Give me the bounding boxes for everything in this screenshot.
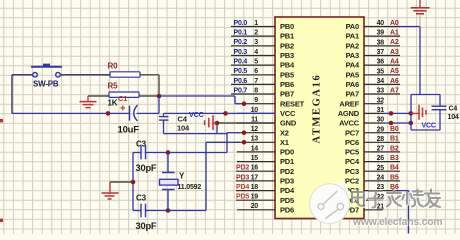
- svg-text:A5: A5: [390, 68, 399, 75]
- svg-text:33: 33: [377, 88, 385, 95]
- svg-text:B3: B3: [390, 155, 399, 162]
- svg-text:104: 104: [448, 114, 459, 121]
- svg-text:Y: Y: [179, 172, 185, 181]
- svg-text:P0.0: P0.0: [234, 20, 248, 27]
- svg-text:PD2: PD2: [236, 165, 249, 172]
- svg-text:PB5: PB5: [280, 70, 294, 79]
- svg-text:104: 104: [177, 124, 190, 133]
- svg-text:PA6: PA6: [346, 80, 359, 89]
- svg-text:1K: 1K: [108, 99, 118, 108]
- svg-text:PC5: PC5: [345, 148, 359, 157]
- svg-text:X2: X2: [280, 128, 289, 137]
- svg-text:B0: B0: [390, 126, 399, 133]
- svg-text:PA5: PA5: [346, 70, 359, 79]
- svg-text:PB2: PB2: [280, 41, 294, 50]
- svg-text:PD3: PD3: [236, 174, 249, 181]
- svg-text:30pF: 30pF: [136, 221, 157, 231]
- svg-text:11.0592: 11.0592: [178, 184, 202, 191]
- svg-text:AVCC: AVCC: [339, 119, 360, 128]
- svg-text:B4: B4: [390, 165, 399, 172]
- svg-text:PC4: PC4: [345, 157, 360, 166]
- svg-text:A0: A0: [390, 20, 399, 27]
- svg-text:6: 6: [254, 68, 258, 75]
- svg-text:36: 36: [377, 59, 385, 66]
- svg-text:SW-PB: SW-PB: [33, 80, 59, 89]
- svg-text:PB3: PB3: [280, 51, 294, 60]
- svg-text:R0: R0: [108, 62, 119, 71]
- svg-text:PD5: PD5: [236, 194, 249, 201]
- svg-text:C4: C4: [449, 105, 458, 112]
- svg-text:C3: C3: [136, 194, 147, 203]
- svg-text:PB0: PB0: [280, 22, 294, 31]
- svg-text:P0.1: P0.1: [234, 30, 248, 37]
- svg-text:PD6: PD6: [280, 205, 294, 214]
- svg-text:PB6: PB6: [280, 80, 294, 89]
- svg-text:39: 39: [377, 30, 385, 37]
- svg-text:21: 21: [377, 203, 385, 210]
- svg-text:P0.3: P0.3: [234, 49, 248, 56]
- svg-text:25: 25: [377, 165, 385, 172]
- svg-text:PC6: PC6: [345, 138, 359, 147]
- svg-text:PD3: PD3: [280, 177, 294, 186]
- svg-text:1: 1: [254, 20, 258, 27]
- svg-text:A4: A4: [390, 59, 399, 66]
- svg-text:35: 35: [377, 68, 385, 75]
- svg-text:13: 13: [251, 136, 259, 143]
- svg-text:A2: A2: [390, 39, 399, 46]
- svg-text:32: 32: [377, 97, 385, 104]
- svg-text:PB4: PB4: [280, 61, 295, 70]
- svg-text:PD4: PD4: [280, 186, 295, 195]
- svg-text:PC2: PC2: [345, 177, 359, 186]
- svg-text:PD0: PD0: [280, 148, 294, 157]
- svg-text:C4: C4: [178, 114, 188, 123]
- svg-text:PD1: PD1: [280, 157, 294, 166]
- svg-text:11: 11: [251, 116, 258, 123]
- svg-text:VCC: VCC: [189, 110, 204, 119]
- svg-text:26: 26: [377, 155, 385, 162]
- svg-text:30pF: 30pF: [136, 163, 157, 173]
- svg-text:AREF: AREF: [339, 99, 359, 108]
- svg-text:34: 34: [377, 78, 385, 85]
- svg-text:40: 40: [377, 20, 385, 27]
- svg-text:ATMEGA16: ATMEGA16: [312, 76, 323, 144]
- svg-text:P0.6: P0.6: [234, 78, 248, 85]
- svg-text:P0.5: P0.5: [234, 68, 248, 75]
- svg-text:X1: X1: [280, 138, 289, 147]
- svg-text:R5: R5: [108, 82, 119, 91]
- svg-text:12: 12: [251, 126, 259, 133]
- svg-text:P0.7: P0.7: [234, 87, 248, 94]
- svg-text:GND: GND: [280, 119, 297, 128]
- svg-text:10uF: 10uF: [118, 125, 140, 136]
- svg-text:PC7: PC7: [345, 128, 359, 137]
- svg-text:16: 16: [251, 165, 259, 172]
- svg-text:P0.4: P0.4: [234, 59, 248, 66]
- svg-text:AGND: AGND: [338, 109, 360, 118]
- svg-text:A6: A6: [390, 78, 399, 85]
- svg-text:28: 28: [377, 136, 385, 143]
- svg-text:3: 3: [254, 39, 258, 46]
- svg-text:B1: B1: [390, 136, 399, 143]
- svg-text:20: 20: [251, 203, 259, 210]
- svg-text:7: 7: [254, 78, 258, 85]
- svg-text:PD5: PD5: [280, 196, 294, 205]
- svg-text:PA1: PA1: [346, 32, 359, 41]
- svg-text:PA0: PA0: [346, 22, 359, 31]
- svg-text:C3: C3: [136, 140, 147, 149]
- svg-text:VCC: VCC: [422, 122, 436, 129]
- svg-text:P0.2: P0.2: [234, 39, 248, 46]
- svg-text:B5: B5: [390, 174, 399, 181]
- svg-text:PA4: PA4: [346, 61, 360, 70]
- svg-text:PA3: PA3: [346, 51, 359, 60]
- svg-text:18: 18: [251, 184, 259, 191]
- svg-text:4: 4: [254, 49, 258, 56]
- svg-text:www.elecfans.com: www.elecfans.com: [352, 217, 442, 228]
- svg-text:15: 15: [251, 155, 259, 162]
- svg-text:27: 27: [377, 146, 385, 153]
- svg-text:B2: B2: [390, 145, 399, 152]
- svg-text:PA7: PA7: [346, 90, 359, 99]
- svg-text:A3: A3: [390, 49, 399, 56]
- svg-text:PD2: PD2: [280, 167, 294, 176]
- svg-text:38: 38: [377, 39, 385, 46]
- svg-text:5: 5: [254, 59, 258, 66]
- svg-text:9: 9: [254, 97, 258, 104]
- svg-text:2: 2: [254, 30, 258, 37]
- svg-text:37: 37: [377, 49, 385, 56]
- svg-text:A1: A1: [390, 30, 399, 37]
- svg-text:PB1: PB1: [280, 32, 294, 41]
- svg-text:A7: A7: [390, 87, 399, 94]
- svg-text:14: 14: [251, 145, 259, 152]
- svg-text:RESET: RESET: [280, 99, 305, 108]
- svg-text:PD4: PD4: [236, 184, 249, 191]
- svg-text:PA2: PA2: [346, 41, 359, 50]
- svg-text:PC3: PC3: [345, 167, 359, 176]
- svg-text:8: 8: [254, 87, 258, 94]
- svg-text:24: 24: [377, 175, 385, 182]
- svg-text:VCC: VCC: [280, 109, 296, 118]
- svg-text:19: 19: [251, 194, 259, 201]
- svg-text:17: 17: [251, 174, 259, 181]
- svg-text:29: 29: [377, 126, 385, 133]
- svg-text:PB7: PB7: [280, 90, 294, 99]
- svg-text:C1: C1: [118, 94, 127, 103]
